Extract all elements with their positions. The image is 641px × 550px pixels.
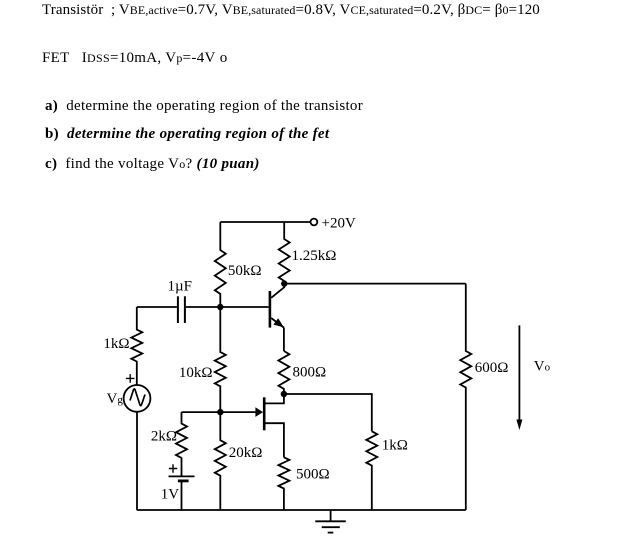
ground xyxy=(315,510,346,533)
item a xyxy=(45,99,363,114)
node drain junction xyxy=(281,391,287,397)
source Vg xyxy=(124,385,151,412)
item c xyxy=(45,157,260,172)
resistor R 1k right-mid xyxy=(366,431,377,510)
resistor R 50k xyxy=(215,222,226,307)
wire capacitor left xyxy=(137,306,177,308)
svg-text:1.25kΩ: 1.25kΩ xyxy=(292,248,337,264)
wire source to rail xyxy=(136,412,138,510)
item b xyxy=(45,127,329,142)
terminal +20V xyxy=(311,219,318,226)
svg-text:50kΩ: 50kΩ xyxy=(228,263,262,279)
wire gate row xyxy=(182,411,257,413)
transistor Q2 jfet xyxy=(255,394,284,457)
problem statement line 2 xyxy=(42,51,228,66)
resistor R 2k xyxy=(176,412,187,476)
svg-text:Vg: Vg xyxy=(107,391,124,407)
svg-text:10kΩ: 10kΩ xyxy=(179,365,213,381)
svg-text:1µF: 1µF xyxy=(168,279,193,295)
battery V1 xyxy=(169,476,195,510)
resistor R 1k left xyxy=(131,307,142,385)
svg-text:1kΩ: 1kΩ xyxy=(103,336,129,352)
svg-text:1kΩ: 1kΩ xyxy=(382,438,408,454)
wire drain row to right 1k xyxy=(284,394,372,431)
svg-text:Vo: Vo xyxy=(534,358,551,374)
resistor R 600 xyxy=(460,284,471,510)
svg-text:600Ω: 600Ω xyxy=(475,360,509,376)
node collector junction xyxy=(281,280,287,286)
arrow Vo xyxy=(516,325,522,430)
resistor R 1.25k xyxy=(279,222,290,284)
transistor Q1 npn xyxy=(270,284,284,351)
resistor R 800 xyxy=(278,351,289,394)
svg-text:1V: 1V xyxy=(161,487,180,503)
source Vg plus xyxy=(126,374,135,383)
wire base row xyxy=(186,306,269,308)
node gate junction xyxy=(217,409,223,415)
capacitor C 1uF xyxy=(178,296,185,323)
svg-text:+20V: +20V xyxy=(322,216,356,232)
wire top supply rail xyxy=(220,221,310,223)
resistor R 20k xyxy=(215,412,226,510)
svg-text:800Ω: 800Ω xyxy=(293,365,327,381)
resistor R 500 xyxy=(278,457,289,510)
node base junction xyxy=(217,304,223,310)
resistor R 10k xyxy=(215,307,226,412)
svg-text:500Ω: 500Ω xyxy=(296,467,330,483)
battery V1 plus xyxy=(169,464,177,472)
wire collector row to right branch xyxy=(284,283,466,285)
wire bottom rail xyxy=(137,509,466,511)
problem statement line 1 xyxy=(42,3,540,18)
svg-text:20kΩ: 20kΩ xyxy=(229,445,263,461)
svg-text:2kΩ: 2kΩ xyxy=(151,429,177,445)
